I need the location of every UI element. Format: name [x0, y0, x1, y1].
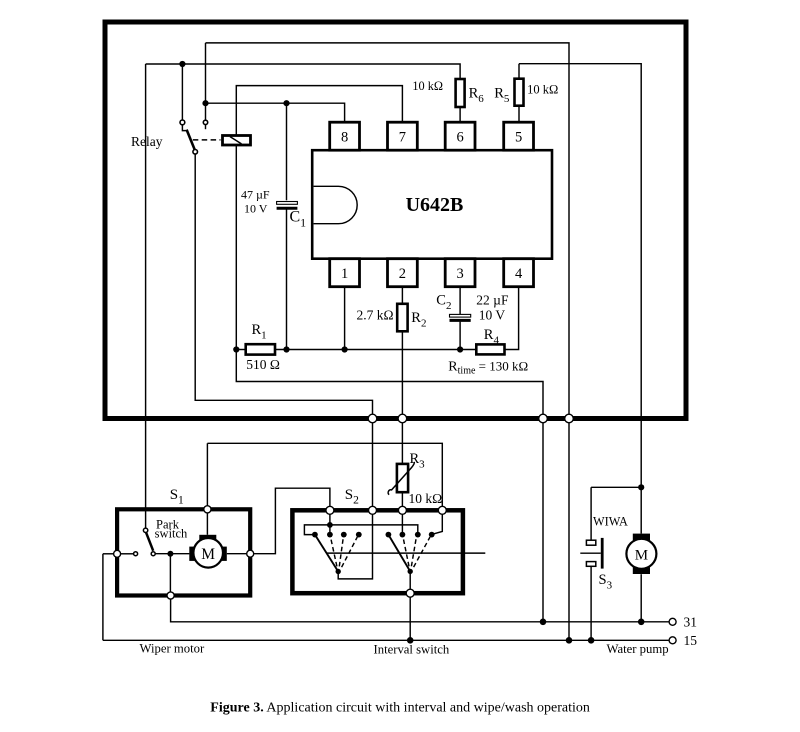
wire: S1 entry to motor block	[206, 513, 208, 535]
svg-text:M: M	[201, 546, 215, 563]
wire: S2 right entry to contact 4	[432, 514, 443, 534]
wire: motor right brush to S1 right terminal	[227, 553, 247, 555]
wire: R4 right to pin 4	[505, 287, 519, 350]
resistor R5	[515, 79, 524, 106]
pin numbers top	[341, 130, 523, 283]
wire: R5 top stub	[518, 64, 520, 79]
wire: y=64 line from x=145.6 to R6 top	[146, 64, 461, 79]
svg-text:10 V: 10 V	[479, 308, 506, 323]
wire: pin 1 to bus	[344, 287, 346, 350]
S2 contact dots	[312, 532, 435, 575]
svg-text:10 kΩ: 10 kΩ	[527, 83, 558, 97]
wire: S2 left entry down to contact 2	[329, 514, 331, 534]
svg-text:Wiper motor: Wiper motor	[140, 642, 205, 656]
svg-text:7: 7	[399, 130, 406, 146]
wire: R2 bottom to R3 top	[401, 331, 403, 464]
svg-text:S3: S3	[599, 572, 613, 592]
wire: pin 3 to C2	[459, 287, 461, 315]
right fan arm (solid)	[388, 535, 410, 572]
wire: node line y=103 to pin 8	[206, 103, 345, 122]
relay K1 coil	[223, 136, 251, 146]
wire: R3 bottom into S2	[401, 492, 403, 506]
svg-text:C2: C2	[436, 293, 451, 313]
svg-text:WIWA: WIWA	[593, 515, 628, 529]
terminal 31	[669, 618, 676, 625]
wire: S1 left terminal out to x=103	[103, 553, 114, 555]
svg-text:R2: R2	[411, 310, 426, 330]
svg-text:10 V: 10 V	[244, 202, 268, 216]
pin 5	[504, 122, 534, 150]
svg-text:47 µF: 47 µF	[241, 188, 270, 202]
S2 box terminals	[326, 506, 446, 597]
svg-text:Water pump: Water pump	[607, 642, 669, 656]
wiper switch S1 box	[117, 509, 250, 595]
wire: S2 crossbar y=524.9 linking contacts	[304, 525, 417, 535]
wire: motor junction down to S1 bottom terminal	[169, 554, 171, 592]
wire: C2 bottom to bus	[459, 322, 461, 350]
control unit boundary box	[105, 22, 686, 419]
wire: WIWA top contact riser	[590, 487, 592, 540]
capacitor C1	[277, 202, 298, 209]
svg-text:switch: switch	[155, 527, 188, 541]
op IC U642B body	[312, 150, 552, 259]
svg-text:R1: R1	[252, 322, 267, 342]
wire: wiper motor to interval switch link y=443	[207, 443, 442, 506]
wire: WIWA branch from pump node	[591, 486, 641, 488]
terminal 15	[669, 637, 676, 644]
wire: y=63.7 line R5 to right vertical x=641	[519, 64, 641, 534]
svg-text:Relay: Relay	[131, 134, 163, 149]
park switch contact circles	[134, 528, 156, 556]
wire: pin 2 to R2	[401, 287, 403, 304]
wire: relay coil bottom to bus	[235, 145, 237, 350]
wash switch S3 (WIWA push button)	[580, 538, 602, 569]
wire: S2 bottom terminal to line 15	[409, 597, 411, 640]
wire: bus y=349.5 between R1 and R4	[275, 349, 476, 351]
pin 3	[445, 259, 475, 287]
park switch arm	[146, 532, 153, 551]
wire: S1 bottom terminal to line 31	[171, 599, 669, 622]
pin 4	[504, 259, 534, 287]
capacitor C2	[450, 314, 471, 320]
wire: C1 top branch x=286.5	[286, 103, 288, 200]
svg-text:Interval switch: Interval switch	[374, 643, 450, 657]
svg-text:2.7 kΩ: 2.7 kΩ	[356, 308, 393, 323]
svg-text:5: 5	[515, 130, 522, 146]
wire: park switch common to left border terminal	[120, 553, 133, 555]
svg-text:4: 4	[515, 266, 523, 282]
wire: bus y=349.5 left of R1	[236, 349, 245, 351]
resistor R2	[397, 304, 407, 332]
svg-text:S1: S1	[170, 487, 184, 507]
svg-text:10 kΩ: 10 kΩ	[409, 491, 443, 506]
wire: pump motor bottom to line 31	[640, 574, 642, 622]
resistor R6	[456, 79, 465, 107]
relay switch arm	[182, 125, 220, 150]
wire: left long vertical x=145.6 down to park switch	[145, 64, 147, 528]
pin 7	[388, 122, 418, 150]
resistor R3 (adjustable)	[388, 462, 414, 495]
wire: C1 bottom to bus	[286, 209, 288, 350]
svg-text:6: 6	[456, 130, 463, 146]
pin 6	[445, 122, 475, 150]
wire: link down into S1 motor	[206, 443, 208, 505]
wire: R5 bottom to pin 5	[518, 106, 520, 123]
relay contact circles	[180, 120, 208, 154]
svg-text:2: 2	[399, 266, 406, 282]
wire: ground run bus to terminal 31 via x=543	[236, 350, 543, 622]
wire: relay coil top to pin 7	[236, 86, 402, 136]
wire: S1 right terminal over and up into S2	[254, 488, 330, 554]
pin 8	[330, 122, 360, 150]
svg-text:22 µF: 22 µF	[476, 293, 509, 308]
right fan dashed positions	[403, 537, 430, 567]
water pump motor M2	[626, 534, 656, 574]
resistor R1	[246, 344, 275, 354]
svg-text:R5: R5	[494, 86, 510, 106]
svg-text:R6: R6	[469, 86, 485, 106]
feed-through terminals on boundary	[368, 414, 573, 423]
pin 2	[388, 259, 418, 287]
wire: x=103 down to line 15	[102, 554, 104, 641]
wire: wash linkage stub y=553	[327, 552, 486, 554]
interval switch S2 box	[292, 510, 463, 593]
resistor R4	[476, 344, 504, 354]
svg-text:10 kΩ: 10 kΩ	[412, 79, 443, 93]
left fan arm (solid)	[315, 535, 338, 572]
svg-text:M: M	[635, 548, 648, 564]
svg-text:31: 31	[684, 615, 698, 630]
svg-text:8: 8	[341, 130, 348, 146]
svg-text:C1: C1	[290, 209, 307, 230]
svg-text:Figure 3. Application circuit: Figure 3. Application circuit with inter…	[210, 701, 590, 716]
S1 box terminals	[114, 506, 254, 599]
wire: line 15	[103, 639, 669, 641]
wire: park contact to motor left brush	[155, 553, 189, 555]
wire: relay NO contact riser x=205.5	[205, 43, 207, 121]
pin 1	[330, 259, 360, 287]
svg-text:510 Ω: 510 Ω	[246, 357, 280, 372]
svg-text:S2: S2	[345, 487, 359, 507]
wire: +supply top line y=43 to right vertical x=569	[206, 43, 570, 640]
wire: relay NC contact riser x=182.4	[181, 64, 183, 120]
wire: right fan apex to S2 bottom terminal	[409, 571, 411, 589]
wire: R6 bottom to pin 6	[459, 107, 461, 122]
wire: relay common down and over to S2	[195, 154, 372, 507]
svg-text:3: 3	[456, 266, 463, 282]
svg-text:15: 15	[684, 633, 698, 648]
svg-text:U642B: U642B	[406, 194, 464, 216]
wiper motor M1	[189, 535, 227, 568]
svg-text:1: 1	[341, 266, 348, 282]
left fan dashed positions	[331, 537, 358, 567]
wire: S2 interval wiper jog to left fan apex	[338, 514, 372, 579]
IC notch mark	[314, 186, 358, 223]
wire: S2 middle entry down to right-fan contact 2	[401, 514, 403, 534]
wire: WIWA bottom contact to line 15	[590, 566, 592, 640]
svg-text:Rtime = 130 kΩ: Rtime = 130 kΩ	[448, 359, 528, 377]
